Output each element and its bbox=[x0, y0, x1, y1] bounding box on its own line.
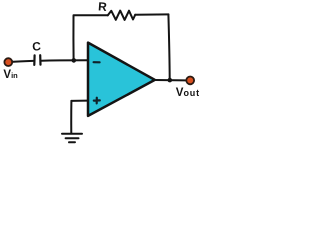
wire feedback riser (left vertical) bbox=[72, 16, 74, 60]
svg-text:Vin: Vin bbox=[3, 69, 18, 81]
terminal Vin bbox=[4, 58, 12, 66]
svg-text:R: R bbox=[98, 0, 108, 14]
resistor R1 zigzag bbox=[108, 11, 135, 20]
op-amp non-inverting pin plus sign bbox=[94, 98, 100, 104]
wire ground vertical bbox=[70, 101, 72, 134]
wire op-amp output to Vout bbox=[155, 79, 186, 81]
capacitor C1 left plate bbox=[33, 55, 35, 65]
wire top left to resistor bbox=[74, 14, 108, 16]
op-amp inverting pin minus sign bbox=[94, 61, 100, 63]
wire non-inverting input to ground bbox=[71, 100, 87, 102]
node junction at inverting input bbox=[72, 58, 77, 63]
svg-text:C: C bbox=[32, 39, 42, 54]
capacitor C1 right plate bbox=[39, 55, 41, 64]
wire right vertical drop to output node bbox=[168, 14, 169, 79]
op-amp U1 triangle bbox=[88, 43, 155, 116]
wire Vin to capacitor bbox=[12, 61, 34, 62]
output node junction dot bbox=[168, 78, 173, 83]
ground symbol bbox=[62, 134, 82, 143]
wire capacitor to op-amp inverting input bbox=[42, 59, 88, 61]
wire resistor to top right corner bbox=[135, 13, 168, 15]
terminal Vout bbox=[186, 77, 194, 85]
svg-text:Vout: Vout bbox=[176, 87, 200, 99]
